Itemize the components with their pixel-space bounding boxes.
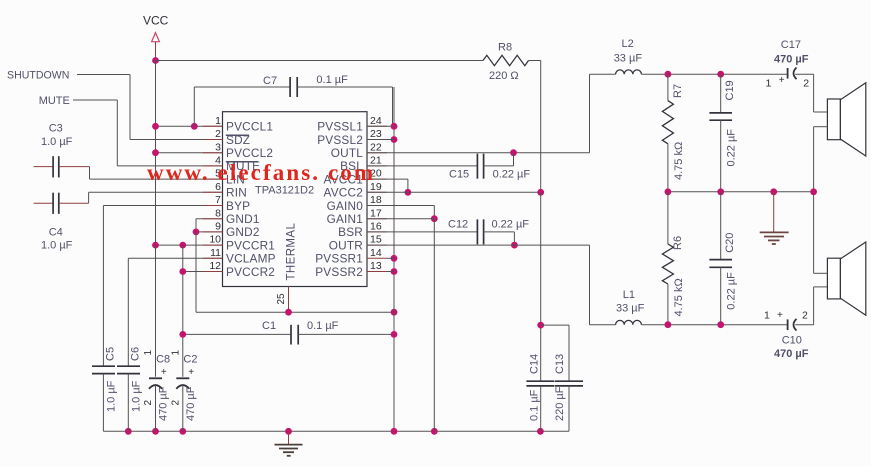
svg-text:1: 1 <box>215 115 221 127</box>
junction L2-C19 <box>717 71 724 78</box>
wire PVCC vertical to C2 <box>182 245 184 377</box>
svg-text:0.1 µF: 0.1 µF <box>529 389 541 421</box>
junction AVCC-R8 <box>537 189 544 196</box>
wire GAIN down to rail <box>433 219 435 432</box>
speaker LS1 <box>827 99 840 140</box>
svg-text:C10: C10 <box>782 335 802 347</box>
svg-text:PVSSL2: PVSSL2 <box>317 133 363 147</box>
svg-text:PVCCR2: PVCCR2 <box>226 265 275 279</box>
svg-text:R8: R8 <box>498 42 512 54</box>
svg-text:+: + <box>188 367 194 378</box>
junction rail C14 <box>537 428 544 435</box>
junction OUTL-C15 <box>510 149 517 156</box>
wire branch to C13 <box>541 324 569 326</box>
svg-text:0.1 µF: 0.1 µF <box>307 320 339 332</box>
junction rail ground <box>285 428 292 435</box>
junction AVCC-C13 branch <box>537 322 544 329</box>
svg-text:L2: L2 <box>622 38 634 50</box>
junction PVCCR2 <box>179 268 186 275</box>
U1 pin 9 GND2 <box>203 231 223 233</box>
junction pin1-C7 <box>191 123 198 130</box>
wire GAIN1 row <box>367 218 434 220</box>
wire L1 to C10 <box>641 324 787 326</box>
junction rail C6 <box>125 428 132 435</box>
U1 pin 15 OUTR <box>367 244 387 246</box>
svg-text:C15: C15 <box>449 169 469 181</box>
wire GND horizontal from pin25 <box>196 311 394 313</box>
svg-text:1.0 µF: 1.0 µF <box>41 240 73 252</box>
junction pin3-VCC <box>152 149 159 156</box>
junction rail-speakers <box>810 188 817 195</box>
svg-text:www. elecfans. com: www. elecfans. com <box>147 160 375 185</box>
svg-text:4.75 kΩ: 4.75 kΩ <box>673 142 685 180</box>
svg-text:24: 24 <box>370 115 382 127</box>
wire LS1 return <box>814 126 828 128</box>
wire OUTL row <box>367 152 590 154</box>
wire C7 right down to PVSSL1 <box>392 87 394 126</box>
U1 MUTE overline <box>226 161 258 163</box>
svg-text:2: 2 <box>802 310 808 322</box>
svg-text:0.22 µF: 0.22 µF <box>493 169 531 181</box>
wire right ground rail <box>668 191 814 193</box>
svg-text:C12: C12 <box>448 219 468 231</box>
wire C12 down to OUTR <box>513 232 515 245</box>
U1 pin 18 GAIN0 <box>367 205 387 207</box>
svg-text:BSR: BSR <box>338 225 363 239</box>
wire MUTE horizontal <box>73 99 117 101</box>
junction rail PVSS <box>391 428 398 435</box>
wire R8 right to corner <box>529 60 541 62</box>
wire pin23 row <box>367 139 394 141</box>
wire MUTE vertical <box>116 100 118 166</box>
wire VCLAMP row <box>128 257 222 259</box>
svg-text:VCC: VCC <box>143 14 169 28</box>
svg-text:2: 2 <box>170 400 181 406</box>
svg-text:23: 23 <box>370 128 382 140</box>
svg-text:22: 22 <box>370 141 382 153</box>
wire GAIN bracket <box>433 206 435 219</box>
svg-text:0.22 µF: 0.22 µF <box>726 272 738 310</box>
svg-text:PVSSL1: PVSSL1 <box>317 120 363 134</box>
U1 pin 8 GND1 <box>203 218 223 220</box>
svg-text:R6: R6 <box>672 236 684 250</box>
junction AVCC <box>405 189 412 196</box>
wire SHUTDOWN horizontal <box>77 74 130 76</box>
svg-text:470 µF: 470 µF <box>158 386 170 421</box>
svg-text:C6: C6 <box>130 347 142 361</box>
svg-text:1: 1 <box>764 310 770 322</box>
svg-text:GND1: GND1 <box>226 212 260 226</box>
svg-text:10: 10 <box>209 234 221 246</box>
svg-text:PVCCR1: PVCCR1 <box>226 238 275 252</box>
svg-text:SHUTDOWN: SHUTDOWN <box>7 70 69 82</box>
junction PVCCR branch <box>179 242 186 249</box>
U1 pin 24 PVSSL1 <box>367 125 387 127</box>
svg-text:GAIN1: GAIN1 <box>327 212 363 226</box>
svg-text:17: 17 <box>370 207 382 219</box>
svg-text:1: 1 <box>170 350 181 356</box>
svg-text:GND2: GND2 <box>226 225 260 239</box>
wire pin1 PVCCL1 row <box>156 125 223 127</box>
svg-text:470 µF: 470 µF <box>185 386 197 421</box>
svg-text:C5: C5 <box>105 347 117 361</box>
wire C3 to LIN <box>89 167 91 180</box>
junction rail C2 <box>179 428 186 435</box>
speaker LS2 <box>827 258 840 299</box>
svg-text:BYP: BYP <box>226 199 250 213</box>
U1 pin 23 PVSSL2 <box>367 139 387 141</box>
junction R7-R6 <box>665 188 672 195</box>
svg-text:+: + <box>161 367 167 378</box>
U1 SDZ overline <box>226 134 249 136</box>
U1 pin 1 PVCCL1 <box>203 125 223 127</box>
svg-text:C7: C7 <box>263 75 277 87</box>
svg-text:2: 2 <box>803 78 809 90</box>
svg-text:PVCCL2: PVCCL2 <box>226 146 273 160</box>
svg-text:AVCC2: AVCC2 <box>324 186 363 200</box>
svg-text:0.22 µF: 0.22 µF <box>492 219 530 231</box>
junction PVSSL1 <box>391 123 398 130</box>
wire pin14 row <box>387 257 394 259</box>
junction C1 right <box>391 331 398 338</box>
wire SHUTDOWN vertical <box>129 75 131 140</box>
wire BYP row <box>103 205 222 207</box>
U1 pin 6 RIN <box>203 191 223 193</box>
wire AVCC2 row <box>367 191 541 193</box>
resistor R8 <box>483 55 529 65</box>
wire MUTE row <box>117 165 222 167</box>
junction VCC top <box>152 57 159 64</box>
junction PVSSL2 <box>391 136 398 143</box>
junction L1-C20 <box>717 321 724 328</box>
svg-text:THERMAL: THERMAL <box>286 223 298 281</box>
svg-text:C2: C2 <box>183 354 197 366</box>
wire OUTL up-over <box>589 74 591 153</box>
svg-text:C4: C4 <box>49 227 63 239</box>
svg-text:3: 3 <box>215 141 221 153</box>
wire OUTR row <box>367 244 590 246</box>
wire C4 to RIN <box>88 192 90 203</box>
junction L2-R7 <box>665 71 672 78</box>
svg-text:12: 12 <box>209 260 221 272</box>
U1 pin 13 PVSSR2 <box>367 271 387 273</box>
svg-text:16: 16 <box>370 221 382 233</box>
ground bottom <box>288 431 290 444</box>
junction C1 left <box>179 331 186 338</box>
wire AVCC1 row <box>367 178 408 180</box>
junction GND1-GND2 <box>193 229 200 236</box>
wire pin13 row <box>387 271 394 273</box>
svg-text:C13: C13 <box>554 354 566 374</box>
ground right <box>773 192 775 233</box>
U1 pin 10 PVCCR1 <box>203 244 223 246</box>
junction pin1-VCC <box>152 123 159 130</box>
svg-text:PVSSR2: PVSSR2 <box>315 265 363 279</box>
U1 pin 22 OUTL <box>367 152 387 154</box>
U1 pin 4 MUTE <box>203 165 223 167</box>
svg-text:1.0 µF: 1.0 µF <box>131 380 143 412</box>
U1 pin 19 AVCC2 <box>367 191 387 193</box>
junction GND-PVSS column <box>391 309 398 316</box>
wire BYP down to C5 <box>102 206 104 367</box>
svg-text:0.1 µF: 0.1 µF <box>316 74 348 86</box>
svg-text:+: + <box>779 75 785 86</box>
svg-text:C19: C19 <box>724 80 736 100</box>
svg-text:9: 9 <box>215 221 221 233</box>
power VCC symbol <box>152 33 160 42</box>
svg-text:GAIN0: GAIN0 <box>327 199 364 213</box>
svg-text:220 µF: 220 µF <box>554 386 566 421</box>
U1 pin 17 GAIN1 <box>367 218 387 220</box>
junction pin25-GND <box>285 309 292 316</box>
svg-text:VCLAMP: VCLAMP <box>226 252 276 266</box>
svg-text:33 µF: 33 µF <box>616 303 645 315</box>
U1 pin 20 AVCC1 <box>367 178 387 180</box>
wire GND1 bracket <box>196 218 223 220</box>
junction rail C8 <box>152 428 159 435</box>
svg-text:TPA3121D2: TPA3121D2 <box>255 185 314 197</box>
svg-text:OUTL: OUTL <box>331 146 364 160</box>
svg-text:4.75 kΩ: 4.75 kΩ <box>673 278 685 316</box>
svg-text:1.0 µF: 1.0 µF <box>41 136 73 148</box>
svg-text:MUTE: MUTE <box>39 95 70 107</box>
svg-text:7: 7 <box>215 194 221 206</box>
wire AVCC column down <box>540 192 542 381</box>
wire R8 output down to AVCC <box>540 61 542 193</box>
wire L2 to C17 <box>641 73 787 75</box>
junction VCC-PVCCR1 <box>152 242 159 249</box>
U1 pin 12 PVCCR2 <box>203 271 223 273</box>
svg-text:PVCCL1: PVCCL1 <box>226 120 273 134</box>
U1 pin 2 SDZ <box>203 139 223 141</box>
svg-text:2: 2 <box>143 400 154 406</box>
wire C17 to speaker <box>813 74 815 112</box>
svg-text:C20: C20 <box>724 233 736 253</box>
junction OUTR-C12 <box>511 242 518 249</box>
wire LS2 plus <box>814 272 828 274</box>
svg-text:1: 1 <box>766 78 772 90</box>
U1 pin 21 BSL <box>367 165 387 167</box>
junction GAIN <box>431 215 438 222</box>
svg-text:+: + <box>777 310 783 321</box>
junction rail-ground2 <box>770 188 777 195</box>
svg-text:0.22 µF: 0.22 µF <box>726 129 738 167</box>
wire ground bottom rail <box>103 430 569 432</box>
svg-text:C17: C17 <box>781 39 801 51</box>
svg-text:OUTR: OUTR <box>329 238 363 252</box>
svg-text:2: 2 <box>215 128 221 140</box>
U1 pin 25 stub <box>288 287 290 313</box>
svg-text:RIN: RIN <box>226 186 247 200</box>
U1 pin 7 BYP <box>203 205 223 207</box>
wire PVSS vertical <box>393 87 395 431</box>
wire AVCC bracket <box>407 179 409 192</box>
junction rail GAIN <box>431 428 438 435</box>
wire VCC top rail <box>156 60 484 62</box>
svg-text:1: 1 <box>143 350 154 356</box>
svg-text:L1: L1 <box>623 289 635 301</box>
svg-text:15: 15 <box>370 234 382 246</box>
wire GND2 row <box>196 231 223 233</box>
svg-text:13: 13 <box>370 260 382 272</box>
svg-text:11: 11 <box>210 247 221 259</box>
U1 pin 16 BSR <box>367 231 387 233</box>
svg-text:25: 25 <box>276 293 287 305</box>
svg-text:470 µF: 470 µF <box>774 54 809 66</box>
wire VCLAMP down to C6 <box>127 258 129 366</box>
svg-text:1.0 µF: 1.0 µF <box>106 380 118 412</box>
wire VCC vertical <box>155 61 157 246</box>
svg-text:PVSSR1: PVSSR1 <box>315 252 363 266</box>
U1 pin 14 PVSSR1 <box>367 257 387 259</box>
wire pin3 PVCCL2 row <box>156 152 223 154</box>
wire SDZ row <box>130 139 223 141</box>
svg-text:33 µF: 33 µF <box>614 53 643 65</box>
wire C10 to speaker <box>813 287 815 325</box>
junction PVSSR1 <box>391 255 398 262</box>
junction PVSSR2 <box>391 268 398 275</box>
svg-text:R7: R7 <box>672 84 684 98</box>
svg-text:18: 18 <box>370 194 382 206</box>
svg-text:220 Ω: 220 Ω <box>489 70 519 82</box>
wire C15 up to OUTL <box>513 153 515 166</box>
svg-text:470 µF: 470 µF <box>774 348 809 360</box>
wire OUTR down-over <box>589 245 591 325</box>
svg-text:C14: C14 <box>529 354 541 374</box>
wire GND down <box>195 232 197 312</box>
junction L1-R6 <box>665 321 672 328</box>
svg-text:14: 14 <box>370 247 382 259</box>
wire pin24 row <box>367 125 394 127</box>
wire VCC column down to C8 <box>155 245 157 377</box>
U1 pin 3 PVCCL2 <box>203 152 223 154</box>
U1 pin 11 VCLAMP <box>203 257 223 259</box>
wire GAIN0 row <box>367 205 434 207</box>
svg-text:C8: C8 <box>156 354 170 366</box>
svg-text:C1: C1 <box>262 320 276 332</box>
svg-text:8: 8 <box>215 207 221 219</box>
wire PVCCR1 row <box>156 244 223 246</box>
U1 pin 5 LIN <box>203 178 223 180</box>
svg-text:C3: C3 <box>49 123 63 135</box>
junction C19-C20 <box>717 188 724 195</box>
wire PVCCR2 row <box>183 271 223 273</box>
op-amp U1 TPA3121D2 body <box>223 112 368 287</box>
